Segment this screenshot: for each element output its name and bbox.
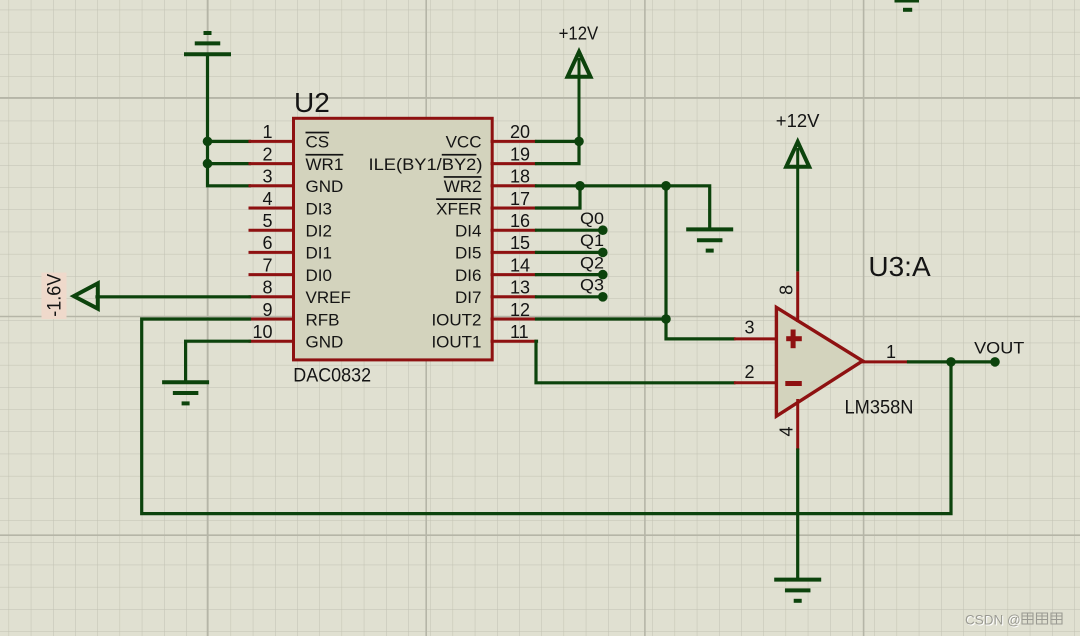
pin 16 stub (U2 right) bbox=[491, 229, 537, 232]
pin 3 stub (U2 left) bbox=[249, 184, 296, 187]
pin 5 stub (U2 left) bbox=[249, 229, 296, 232]
terminal -1.6V box bbox=[42, 273, 67, 320]
svg-text:WR1: WR1 bbox=[306, 155, 344, 174]
op-amp minus symbol bbox=[785, 381, 802, 386]
svg-text:13: 13 bbox=[510, 278, 530, 298]
pin 17 stub (U2 right) bbox=[491, 207, 537, 210]
svg-text:CSDN @: CSDN @ bbox=[965, 613, 1021, 628]
svg-text:2: 2 bbox=[262, 144, 272, 164]
svg-text:10: 10 bbox=[252, 322, 272, 342]
node Q1 dot bbox=[598, 248, 608, 258]
pin 6 stub (U2 left) bbox=[249, 251, 296, 254]
input arrow -1.6V bbox=[74, 283, 98, 308]
op-amp pin 1 output stub bbox=[862, 360, 909, 363]
wire to pin 1 bbox=[208, 140, 250, 143]
svg-text:DI4: DI4 bbox=[455, 222, 481, 241]
junction pin18 bbox=[575, 181, 585, 191]
node Q3 dot bbox=[598, 292, 608, 302]
svg-text:4: 4 bbox=[777, 426, 797, 436]
svg-text:IOUT1: IOUT1 bbox=[431, 333, 481, 352]
wire VREF pin8 bbox=[97, 295, 250, 298]
svg-text:19: 19 bbox=[510, 144, 530, 164]
pin 1 stub (U2 left) bbox=[249, 140, 296, 143]
pin 9 stub (U2 left) bbox=[249, 318, 296, 321]
op-amp pin 3 stub bbox=[734, 337, 777, 340]
node VOUT dot bbox=[990, 357, 1000, 367]
svg-text:IOUT2: IOUT2 bbox=[431, 310, 481, 329]
svg-text:DI2: DI2 bbox=[306, 222, 332, 241]
pin 2 stub (U2 left) bbox=[249, 162, 296, 165]
wire pin18/pin17 ground net bbox=[537, 186, 581, 208]
svg-text:6: 6 bbox=[262, 233, 272, 253]
junction net-x666 bbox=[661, 181, 671, 191]
svg-text:DI1: DI1 bbox=[306, 244, 332, 263]
op-amp pin 4 stub bbox=[796, 399, 799, 450]
junction IOUT2 bbox=[661, 314, 671, 324]
svg-text:DI7: DI7 bbox=[455, 288, 481, 307]
pin 13 stub (U2 right) bbox=[491, 295, 537, 298]
pin 19 stub (U2 right) bbox=[491, 162, 537, 165]
junction output/feedback bbox=[946, 357, 956, 367]
svg-text:18: 18 bbox=[510, 167, 530, 187]
svg-text:DI0: DI0 bbox=[306, 266, 332, 285]
wire Q3 bbox=[537, 295, 603, 298]
power +12V (op-amp) bbox=[786, 142, 809, 272]
wire op-amp pin4 to ground bbox=[796, 450, 799, 577]
wire IOUT1 pin11 to op-amp inverting input bbox=[536, 341, 734, 383]
svg-text:Q2: Q2 bbox=[580, 254, 604, 272]
wire vertical to IOUT2/op-amp bbox=[666, 186, 734, 339]
watermark CSDN bbox=[965, 613, 1062, 628]
pin 11 stub (U2 right) bbox=[491, 340, 537, 343]
svg-text:U3:A: U3:A bbox=[868, 251, 931, 282]
svg-text:8: 8 bbox=[262, 278, 272, 298]
svg-text:1: 1 bbox=[886, 342, 896, 362]
svg-text:Q3: Q3 bbox=[580, 277, 604, 295]
pin 12 stub (U2 right) bbox=[491, 318, 537, 321]
svg-text:17: 17 bbox=[510, 189, 530, 209]
pin 18 stub (U2 right) bbox=[491, 184, 537, 187]
wire VCC pin20 to +12V and pin19 bbox=[537, 140, 580, 143]
svg-text:14: 14 bbox=[510, 255, 530, 275]
wire Q0 bbox=[537, 229, 603, 232]
ground (top-left, pointing up) bbox=[184, 33, 231, 54]
svg-text:RFB: RFB bbox=[306, 310, 340, 329]
svg-text:GND: GND bbox=[306, 333, 344, 352]
junction VCC bbox=[574, 137, 584, 147]
svg-text:-1.6V: -1.6V bbox=[44, 274, 66, 317]
svg-text:DI5: DI5 bbox=[455, 244, 481, 263]
wire RFB pin9 feedback loop to VOUT bbox=[142, 319, 951, 514]
svg-text:ILE(BY1/BY2): ILE(BY1/BY2) bbox=[369, 155, 483, 174]
pin 20 stub (U2 right) bbox=[491, 140, 537, 143]
svg-text:XFER: XFER bbox=[436, 199, 481, 218]
svg-text:VCC: VCC bbox=[446, 133, 482, 152]
pin 10 stub (U2 left) bbox=[249, 340, 296, 343]
op-amp U3:A body bbox=[776, 307, 862, 416]
wire ground lead to pins 1,2,3 bbox=[208, 54, 250, 186]
svg-text:Q0: Q0 bbox=[580, 210, 604, 228]
junction pin2 net bbox=[203, 159, 213, 169]
svg-text:+12V: +12V bbox=[559, 24, 599, 44]
pin 7 stub (U2 left) bbox=[249, 273, 296, 276]
power +12V (top) bbox=[568, 52, 591, 142]
svg-text:LM358N: LM358N bbox=[845, 398, 914, 419]
svg-text:15: 15 bbox=[510, 233, 530, 253]
svg-text:3: 3 bbox=[745, 318, 755, 338]
ground (right mid) bbox=[686, 229, 733, 250]
wire GND pin10 bbox=[186, 341, 250, 382]
svg-text:1: 1 bbox=[262, 122, 272, 142]
svg-text:CS: CS bbox=[306, 133, 330, 152]
ground (op-amp) bbox=[774, 580, 821, 601]
svg-text:Q1: Q1 bbox=[580, 232, 604, 250]
svg-text:20: 20 bbox=[510, 122, 530, 142]
op-amp plus symbol bbox=[786, 330, 802, 349]
wire net to ground and opamp bbox=[580, 186, 710, 230]
svg-text:11: 11 bbox=[510, 322, 529, 342]
pin 8 stub (U2 left) bbox=[249, 295, 296, 298]
op-amp pin 8 stub bbox=[796, 271, 799, 322]
svg-text:8: 8 bbox=[777, 285, 797, 295]
svg-text:16: 16 bbox=[510, 211, 530, 231]
svg-text:DI3: DI3 bbox=[306, 199, 332, 218]
svg-text:12: 12 bbox=[510, 300, 530, 320]
wire to pin 2 bbox=[208, 162, 250, 165]
node Q0 dot bbox=[598, 225, 608, 235]
op-amp pin 2 stub bbox=[734, 381, 777, 384]
ground (top-right, partial) bbox=[895, 1, 920, 10]
wire IOUT2 pin12 bbox=[537, 317, 667, 320]
pin 14 stub (U2 right) bbox=[491, 273, 537, 276]
pin 4 stub (U2 left) bbox=[249, 207, 296, 210]
svg-text:5: 5 bbox=[262, 211, 272, 231]
svg-text:VREF: VREF bbox=[306, 288, 351, 307]
svg-text:2: 2 bbox=[745, 362, 755, 382]
svg-text:DI6: DI6 bbox=[455, 266, 481, 285]
wire Q2 bbox=[537, 273, 603, 276]
wire output to VOUT bbox=[909, 360, 996, 363]
svg-text:7: 7 bbox=[262, 255, 272, 275]
wire Q1 bbox=[537, 251, 603, 254]
svg-text:3: 3 bbox=[262, 167, 272, 187]
svg-text:U2: U2 bbox=[294, 87, 330, 118]
ground (pin10) bbox=[162, 382, 209, 403]
svg-text:DAC0832: DAC0832 bbox=[293, 366, 371, 387]
svg-text:9: 9 bbox=[262, 300, 272, 320]
svg-text:GND: GND bbox=[306, 177, 344, 196]
svg-text:+12V: +12V bbox=[776, 111, 820, 131]
svg-text:4: 4 bbox=[262, 189, 272, 209]
svg-text:WR2: WR2 bbox=[444, 177, 482, 196]
junction pin1 net bbox=[203, 137, 213, 147]
pin 15 stub (U2 right) bbox=[491, 251, 537, 254]
svg-text:VOUT: VOUT bbox=[974, 339, 1024, 358]
node Q2 dot bbox=[598, 270, 608, 280]
chip U2 body bbox=[294, 118, 493, 360]
